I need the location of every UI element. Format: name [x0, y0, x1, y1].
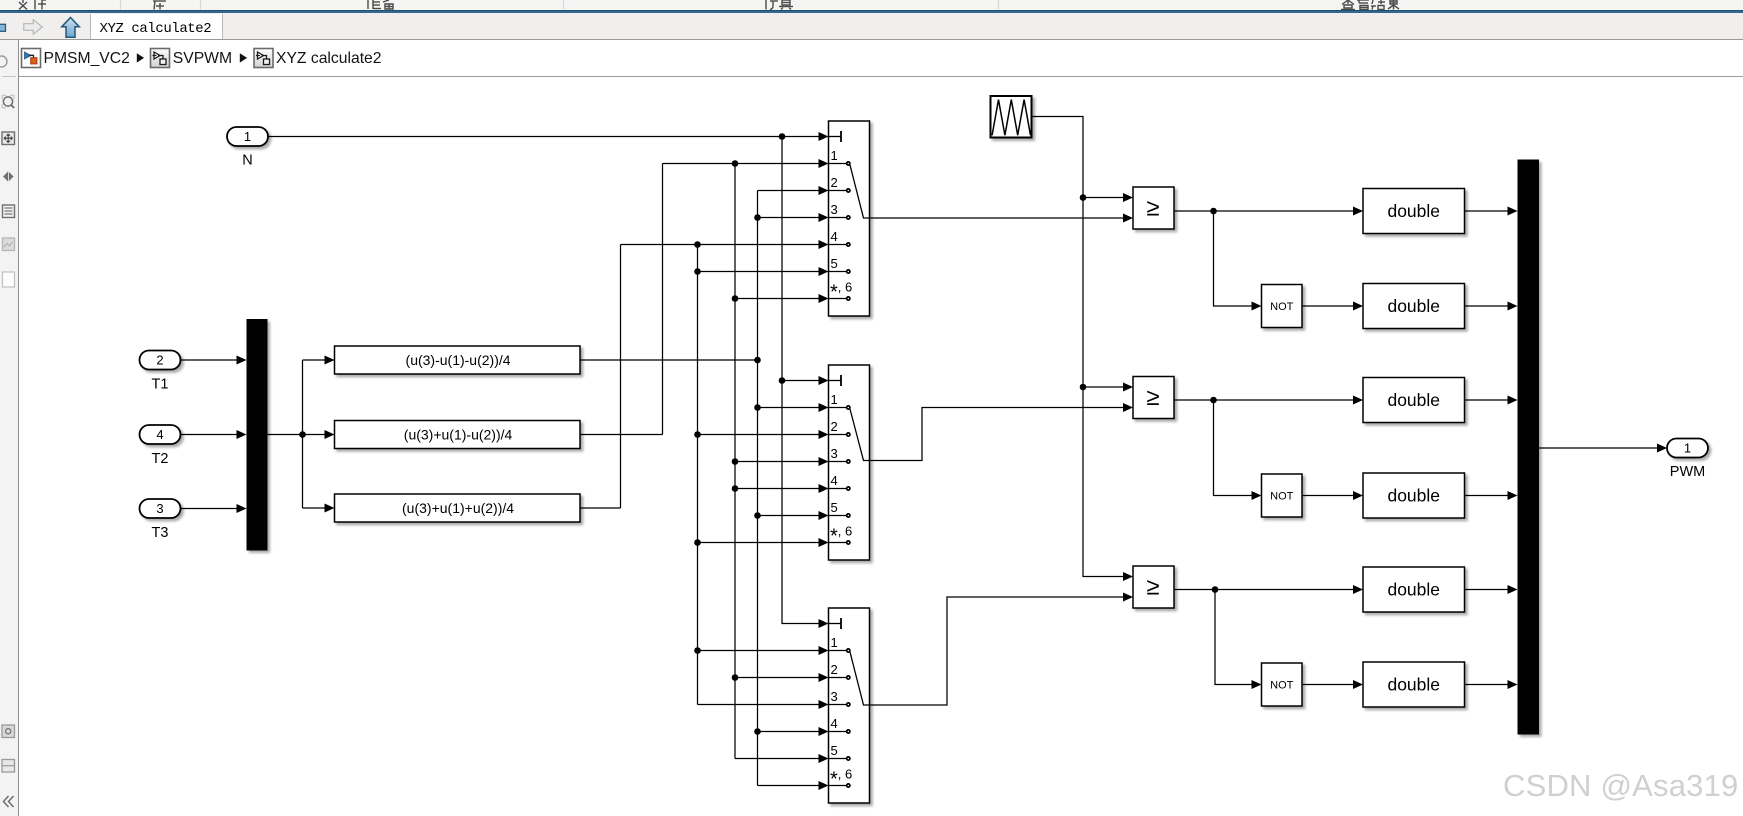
wire: net Z (F3 output bus) — [580, 240, 829, 709]
wire: GE1 output to D1 and NOT1 — [1174, 207, 1363, 311]
wire: NOT1 output to D2 — [1302, 302, 1363, 311]
wire: mux M2 output to outport PWM — [1539, 444, 1667, 453]
sidebar divider — [2, 76, 16, 78]
wire: net N (inport 1 to switch control ports) — [268, 132, 829, 628]
left sidebar — [0, 40, 19, 816]
sidebar icon: empty box — [3, 272, 15, 287]
svg-text:(u(3)-u(1)-u(2))/4: (u(3)-u(1)-u(2))/4 — [406, 352, 511, 368]
svg-text:(u(3)+u(1)-u(2))/4: (u(3)+u(1)-u(2))/4 — [404, 427, 513, 443]
ribbon tab label 准备 (Prepare) — [368, 0, 393, 9]
svg-text:double: double — [1387, 390, 1440, 410]
document tab — [90, 14, 223, 39]
ribbon tab label 库 (Library) — [153, 1, 166, 10]
mux M1 (input combiner bar) — [247, 319, 268, 551]
sidebar icon: image (disabled) — [3, 238, 15, 251]
svg-text:≥: ≥ — [1146, 384, 1159, 411]
wire: NOT3 output to D6 — [1302, 680, 1363, 689]
relational operator GE2 "&gt;=" — [1133, 377, 1174, 419]
wire: GE3 output to D5 and NOT3 — [1174, 585, 1363, 689]
ribbon strip (cut off at top) — [0, 0, 1743, 11]
svg-text:≥: ≥ — [1146, 573, 1159, 600]
svg-text:3: 3 — [831, 446, 838, 461]
wire: mux M1 output to F1 F2 F3 inputs — [268, 356, 335, 513]
wire: T2 to mux M1 — [181, 430, 247, 439]
svg-text:N: N — [242, 153, 252, 169]
inport 1 "N" — [227, 127, 268, 146]
fcn block F1 "(u(3)-u(1)-u(2))/4" — [335, 346, 581, 374]
ribbon tab label 查看结果 (Review Results) — [1341, 0, 1399, 10]
wire: net X (F1 output bus) — [580, 186, 829, 790]
outport 1 "PWM" — [1667, 439, 1708, 458]
svg-text:1: 1 — [831, 392, 838, 407]
svg-text:double: double — [1387, 486, 1440, 506]
svg-text:double: double — [1387, 296, 1440, 316]
svg-text:1: 1 — [244, 129, 251, 144]
svg-text:1: 1 — [831, 148, 838, 163]
data type conversion D1 "double" — [1363, 189, 1465, 234]
svg-text:5: 5 — [831, 256, 838, 271]
svg-text:NOT: NOT — [1270, 491, 1294, 503]
breadcrumb subsystem icon XYZ calculate2 — [254, 49, 273, 68]
wire: D3 output to mux M2 — [1465, 396, 1518, 405]
sidebar icon: list — [3, 205, 15, 218]
tab title text — [100, 21, 212, 37]
wire: GE2 output to D3 and NOT2 — [1174, 396, 1363, 501]
logical operator NOT2 — [1262, 474, 1303, 517]
svg-text:double: double — [1387, 580, 1440, 600]
tab bar — [0, 13, 1743, 40]
svg-text:1: 1 — [1684, 441, 1691, 456]
svg-text:5: 5 — [831, 500, 838, 515]
svg-text:2: 2 — [156, 353, 163, 368]
inport 3 "T3" — [140, 499, 181, 518]
wire: D6 output to mux M2 — [1465, 680, 1518, 689]
sidebar icon: collapse — [4, 796, 14, 807]
ribbon tab label 文件 (File) — [19, 0, 46, 10]
breadcrumb separator arrow — [240, 53, 247, 62]
svg-text:2: 2 — [831, 662, 838, 677]
data type conversion D5 "double" — [1363, 567, 1465, 612]
repeating sequence (triangle wave) block — [991, 96, 1032, 138]
blue ribbon underline — [0, 10, 1743, 14]
sidebar icon: snapshot — [2, 725, 15, 738]
svg-text:T1: T1 — [152, 377, 169, 393]
watermark CSDN @Asa319 — [1503, 768, 1738, 804]
fcn block F2 "(u(3)+u(1)-u(2))/4" — [335, 421, 581, 449]
breadcrumb separator arrow — [137, 53, 144, 62]
data type conversion D2 "double" — [1363, 284, 1465, 329]
svg-text:T3: T3 — [152, 525, 169, 541]
fcn block F3 "(u(3)+u(1)+u(2))/4" — [335, 494, 581, 522]
ribbon tab label 仿真 (Simulate) — [766, 0, 793, 10]
svg-text:T2: T2 — [152, 451, 169, 467]
nav icon: back (cut off at edge) — [0, 24, 6, 31]
svg-text:4: 4 — [831, 473, 838, 488]
multiport switch SW2 — [829, 365, 870, 560]
wire: triangle wave to GE1 GE2 GE3 first inputs — [1032, 117, 1134, 582]
wire: SW2 output to GE2 — [870, 403, 1134, 461]
data type conversion D4 "double" — [1363, 473, 1465, 518]
sidebar icon: pan — [2, 132, 15, 145]
sidebar icon: zoom — [2, 95, 14, 108]
svg-text:2: 2 — [831, 419, 838, 434]
mux M2 (output combiner bar) — [1518, 160, 1540, 735]
wire: net Y (F2 output bus) — [580, 159, 829, 763]
wire: SW1 output to GE1 — [870, 214, 1134, 223]
wire: D4 output to mux M2 — [1465, 491, 1518, 500]
relational operator GE1 "&gt;=" — [1133, 187, 1174, 229]
multiport switch SW3 — [829, 608, 870, 803]
svg-text:double: double — [1387, 675, 1440, 695]
svg-text:PWM: PWM — [1670, 464, 1705, 480]
nav icon: forward arrow — [24, 20, 43, 35]
wire: D2 output to mux M2 — [1465, 302, 1518, 311]
sidebar icon: fit view — [3, 172, 14, 182]
wire: NOT2 output to D4 — [1302, 491, 1363, 500]
wire: SW3 output to GE3 — [870, 593, 1134, 706]
nav icon: up arrow — [62, 18, 80, 38]
svg-text:4: 4 — [831, 716, 838, 731]
svg-text:NOT: NOT — [1270, 301, 1294, 313]
ribbon separators — [121, 0, 999, 10]
svg-text:3: 3 — [156, 501, 163, 516]
wire: D5 output to mux M2 — [1465, 585, 1518, 594]
svg-text:4: 4 — [156, 427, 163, 442]
svg-text:double: double — [1387, 201, 1440, 221]
svg-text:4: 4 — [831, 229, 838, 244]
data type conversion D3 "double" — [1363, 378, 1465, 423]
wire: D1 output to mux M2 — [1465, 207, 1518, 216]
breadcrumb model icon PMSM_VC2 — [22, 49, 41, 68]
svg-text:(u(3)+u(1)+u(2))/4: (u(3)+u(1)+u(2))/4 — [402, 500, 514, 516]
breadcrumb bar — [19, 40, 1743, 76]
svg-text:NOT: NOT — [1270, 680, 1294, 692]
breadcrumb subsystem icon SVPWM — [151, 49, 170, 68]
svg-text:5: 5 — [831, 743, 838, 758]
relational operator GE3 "&gt;=" — [1133, 566, 1174, 608]
svg-text:2: 2 — [831, 175, 838, 190]
svg-text:≥: ≥ — [1146, 194, 1159, 221]
sidebar icon: split view — [2, 760, 15, 773]
svg-text:3: 3 — [831, 202, 838, 217]
inport 4 "T2" — [140, 425, 181, 444]
sidebar icon: browser circle (cut off) — [0, 56, 7, 67]
svg-text:3: 3 — [831, 689, 838, 704]
logical operator NOT3 — [1262, 663, 1303, 706]
svg-text:1: 1 — [831, 635, 838, 650]
logical operator NOT1 — [1262, 285, 1303, 328]
inport 2 "T1" — [140, 351, 181, 370]
wire: T1 to mux M1 — [181, 356, 247, 365]
data type conversion D6 "double" — [1363, 662, 1465, 707]
wire: T3 to mux M1 — [181, 504, 247, 513]
multiport switch SW1 — [829, 121, 870, 316]
